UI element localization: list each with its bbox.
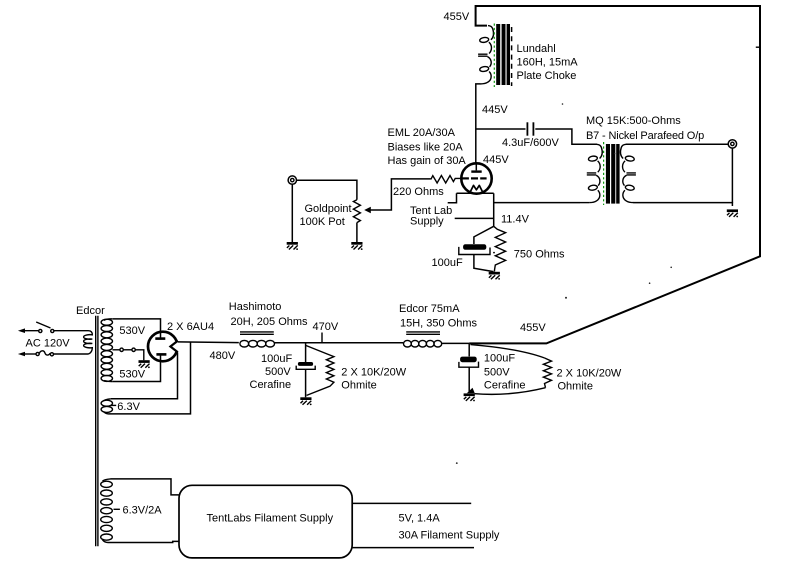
transformer T2 core bars — [606, 144, 610, 204]
ground (cathode RC) — [489, 272, 500, 280]
svg-text:100uF: 100uF — [432, 257, 463, 269]
stray speck marks — [565, 297, 567, 299]
tube V1 filament — [471, 185, 483, 191]
ground (center tap) — [139, 360, 150, 368]
svg-text:100uF: 100uF — [261, 353, 292, 365]
svg-text:480V: 480V — [210, 350, 236, 362]
resistor R1 220 Ohms grid stopper — [431, 176, 463, 184]
capacitor C2 100uF cathode bypass (electrolytic) — [463, 244, 486, 250]
wire Tent Lab stub B — [455, 217, 494, 219]
ground (pot) — [351, 242, 362, 250]
wire terminal down to ground — [291, 184, 293, 242]
svg-text:500V: 500V — [265, 366, 291, 378]
wire box output bottom — [352, 547, 474, 549]
svg-text:Plate Choke: Plate Choke — [517, 70, 577, 82]
transformer T2 output primary coil — [587, 144, 602, 202]
svg-text:6.3V: 6.3V — [117, 401, 140, 413]
inductor L2 Hashimoto choke core — [240, 331, 274, 333]
svg-text:Edcor: Edcor — [76, 305, 105, 317]
wire cap to ground — [468, 367, 470, 392]
capacitor C3 100uF/500V Cerafine — [298, 362, 313, 366]
svg-text:Lundahl: Lundahl — [517, 43, 556, 55]
transformer T1 530V secondary winding — [104, 319, 113, 321]
ground (filter 2) with arrow — [467, 388, 475, 393]
tube V1 EML 20A/30A triode envelope — [461, 163, 491, 193]
capacitor C1 4.3uF/600V — [526, 122, 528, 135]
svg-text:445V: 445V — [483, 154, 509, 166]
tube V2 plate bar top — [155, 337, 165, 340]
potentiometer R2 Goldpoint 100K — [353, 200, 360, 223]
ground (output secondary) — [727, 209, 738, 217]
center tap wire and jumper — [113, 349, 120, 351]
tube V1 grid dashes — [462, 177, 469, 179]
wire heater drop 2 — [109, 342, 191, 414]
resistor R5 2x10K/20W Ohmite (curved leads) — [471, 345, 545, 358]
wire grid to pot wiper — [370, 179, 430, 210]
inductor L2 Hashimoto choke coil — [240, 340, 275, 347]
wire cathode to transformer primary bottom — [494, 202, 580, 204]
transformer T2 secondary coil (mirrored) — [620, 144, 635, 202]
svg-text:Cerafine: Cerafine — [484, 380, 526, 392]
svg-text:MQ 15K:500-Ohms: MQ 15K:500-Ohms — [586, 115, 681, 127]
svg-text:EML 20A/30A: EML 20A/30A — [388, 127, 456, 139]
svg-text:445V: 445V — [482, 104, 508, 116]
wire box output top — [352, 502, 471, 504]
tube V1 plate lead — [475, 163, 477, 170]
wire 445V junction to coupling cap — [476, 128, 526, 130]
wiper arrow — [364, 207, 371, 213]
svg-text:4.3uF/600V: 4.3uF/600V — [502, 137, 560, 149]
svg-text:Ohmite: Ohmite — [558, 381, 593, 393]
svg-text:2 X 10K/20W: 2 X 10K/20W — [557, 368, 622, 380]
svg-text:Cerafine: Cerafine — [250, 379, 292, 391]
svg-text:11.4V: 11.4V — [501, 214, 530, 226]
wire heater drop 1 — [111, 352, 178, 398]
svg-text:470V: 470V — [313, 321, 339, 333]
wire cap to output transformer primary — [535, 129, 597, 144]
svg-text:15H, 350 Ohms: 15H, 350 Ohms — [400, 318, 478, 330]
svg-text:455V: 455V — [520, 322, 546, 334]
inductor L3 Edcor choke coil — [404, 340, 442, 347]
filter 2: wire node down — [468, 343, 470, 356]
AC line bottom: arrow — [18, 352, 25, 357]
box TentLabs Filament Supply — [179, 485, 352, 558]
wire cathode node to RC network — [474, 226, 494, 244]
svg-text:220 Ohms: 220 Ohms — [393, 186, 444, 198]
svg-text:Edcor 75mA: Edcor 75mA — [399, 303, 460, 315]
svg-text:5V, 1.4A: 5V, 1.4A — [399, 513, 441, 525]
svg-text:2 X 6AU4: 2 X 6AU4 — [167, 321, 214, 333]
input terminal J1 — [288, 176, 296, 184]
svg-text:20H, 205 Ohms: 20H, 205 Ohms — [231, 316, 309, 328]
wire 530V bottom to rectifier lower plate — [113, 355, 161, 382]
capacitor C4 100uF/500V Cerafine — [460, 357, 477, 363]
svg-text:160H, 15mA: 160H, 15mA — [517, 57, 579, 69]
wire choke bottom to cap junction and tube plate — [476, 84, 481, 164]
svg-text:530V: 530V — [119, 369, 145, 381]
label 6.3V/2A — [114, 508, 120, 510]
svg-text:500V: 500V — [484, 367, 510, 379]
svg-text:30A Filament Supply: 30A Filament Supply — [399, 530, 500, 542]
resistor R4 2x10K/20W Ohmite — [306, 346, 334, 396]
inductor L3 Edcor choke core — [406, 331, 440, 333]
svg-text:100K Pot: 100K Pot — [300, 216, 345, 228]
svg-text:Has gain of 30A: Has gain of 30A — [388, 155, 467, 167]
transformer T1 6.3V winding — [103, 399, 111, 401]
wire primary bottom exit — [580, 202, 589, 204]
choke core dashed line right — [511, 27, 513, 86]
resistor R3 750 Ohms cathode — [494, 226, 506, 271]
wire cathode node vertical — [493, 193, 495, 226]
output terminal J2 — [728, 140, 736, 148]
wire filament bus under tube — [457, 192, 494, 194]
AC line top: arrow — [18, 328, 25, 333]
label 470V tick — [321, 333, 323, 343]
wire terminal to pot top — [297, 180, 357, 200]
svg-text:Goldpoint: Goldpoint — [305, 203, 352, 215]
inductor L1 Lundahl plate choke coil — [478, 26, 493, 84]
wire output terminal down — [731, 149, 733, 203]
svg-text:2 X 10K/20W: 2 X 10K/20W — [341, 367, 406, 379]
wire secondary top to output terminal — [626, 143, 728, 145]
svg-text:Hashimoto: Hashimoto — [229, 301, 282, 313]
node tick on right vertical — [756, 46, 761, 48]
tube V1 plate bar — [471, 170, 481, 172]
transformer T1 core — [95, 316, 97, 547]
switch S1 bottom pole (squiggle) — [36, 352, 39, 355]
label 6.3V — [111, 404, 116, 406]
wire cap to ground — [305, 369, 307, 397]
svg-text:455V: 455V — [444, 11, 470, 23]
transformer T2 core green dashed line — [603, 142, 605, 205]
wire B+ top loop: from plate choke top, across top, down right side, diagonal to 455V node — [469, 6, 760, 343]
tube V2 plate bar bottom — [156, 353, 166, 356]
choke core green dashed line — [493, 24, 495, 88]
tube V2 2 X 6AU4 envelope — [148, 332, 178, 362]
svg-text:Ohmite: Ohmite — [341, 380, 376, 392]
svg-text:B7 - Nickel Parafeed O/p: B7 - Nickel Parafeed O/p — [586, 130, 704, 142]
svg-text:100uF: 100uF — [484, 353, 515, 365]
svg-text:6.3V/2A: 6.3V/2A — [123, 505, 163, 517]
wire pot bottom to ground — [356, 223, 358, 242]
wire 6.3V/2A bottom to box — [108, 541, 179, 542]
filter 1: wire node down — [305, 343, 307, 362]
tube V2 cathode notch — [175, 342, 180, 352]
ground (input terminal) — [287, 242, 298, 250]
ground (filter 1) — [300, 397, 311, 405]
svg-text:750 Ohms: 750 Ohms — [514, 249, 565, 261]
wire 6.3V/2A top to box — [111, 479, 179, 495]
wire choke to 455V node — [442, 342, 469, 344]
svg-text:TentLabs Filament Supply: TentLabs Filament Supply — [207, 513, 334, 525]
wire 530V top to rectifier plate — [113, 319, 161, 338]
wire choke to 470V node — [275, 342, 404, 344]
transformer T1 6.3V/2A winding — [103, 479, 111, 481]
wire secondary bottom to ground drop — [633, 203, 732, 206]
wire Tent Lab stub A — [448, 193, 457, 202]
svg-text:Supply: Supply — [410, 216, 444, 228]
choke core lamination bars — [496, 24, 500, 85]
svg-text:AC 120V: AC 120V — [26, 338, 71, 350]
wire cap bottom to ground — [474, 255, 494, 272]
svg-text:530V: 530V — [119, 325, 145, 337]
transformer T1 Edcor primary coil — [84, 331, 93, 354]
switch S1 top pole — [39, 329, 42, 332]
svg-text:Biases like 20A: Biases like 20A — [388, 142, 464, 154]
wire rectifier output 480V — [178, 341, 239, 344]
